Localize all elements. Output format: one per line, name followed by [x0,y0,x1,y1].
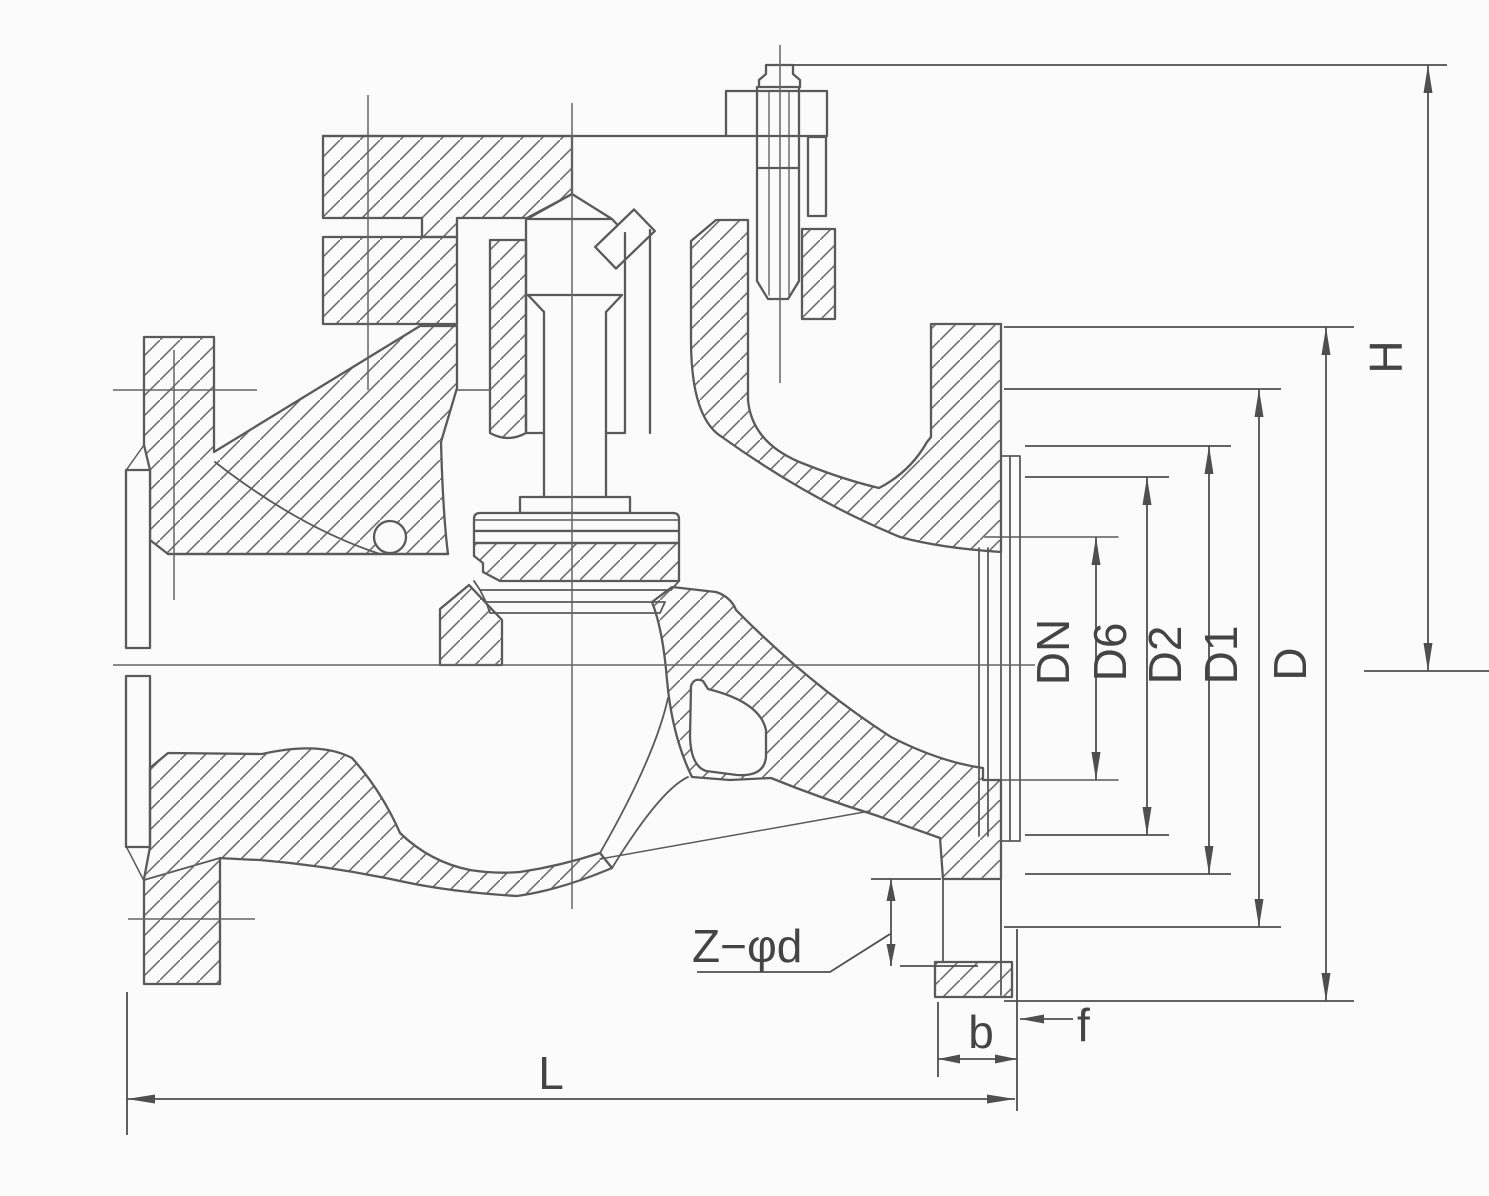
bonnet top plate [323,136,572,237]
left flange hole cross top [113,350,257,600]
neck ledge tick [457,389,490,391]
clip [595,209,655,268]
stem [544,312,606,497]
guide cylinder [526,219,650,433]
D1 extensions [1004,389,1281,927]
horizontal centerline [113,664,1035,666]
svg-text:f: f [1077,999,1090,1051]
seat left [440,585,502,665]
bolt centerline [779,45,781,383]
svg-text:b: b [968,1006,994,1058]
disc top plate [474,513,679,531]
partition band [652,587,1001,879]
guide cone [527,194,625,233]
svg-text:D6: D6 [1084,623,1136,682]
right flange face lines [979,324,1020,995]
projection line outlet bottom [600,811,870,859]
D1 dimension line [1258,389,1260,927]
svg-text:DN: DN [1027,619,1079,685]
L arrows [127,1095,155,1104]
hub taper line bottom [144,858,220,880]
D2 extensions [1025,446,1231,874]
b arrows [938,1055,960,1064]
right bore bottom line [985,779,1118,781]
bonnet top line [323,135,726,137]
bolt cap [759,65,800,87]
D2 dimension line [1208,446,1210,874]
right flange bolt hole outline [935,879,1001,962]
left raised face top [126,470,150,648]
D6 dimension line [1146,477,1148,835]
bolt shank [757,87,799,299]
right upper wall and flange [691,220,1001,552]
disc mid band [474,531,679,543]
H bottom extension [1364,670,1489,672]
b dimension line [938,1058,1017,1060]
svg-text:D: D [1264,647,1316,680]
left web and flange top [144,326,457,554]
arrowheads [127,65,1433,1104]
vertical stem centerline [571,103,573,909]
D arrows [1322,327,1331,355]
D2 arrows [1205,446,1214,474]
bolt lug right [802,229,835,319]
f dimension line [1020,1018,1073,1020]
svg-text:Z−φd: Z−φd [692,920,802,972]
disc lower plates [474,581,679,613]
Z-phi-d leader [697,934,890,972]
phi-d dimension line [890,879,892,966]
disc hatched band [474,543,679,581]
bolt washer plate [808,137,826,216]
hub transition curve [215,462,380,554]
D dimension line [1325,327,1327,1001]
b extension [937,1002,939,1077]
svg-text:H: H [1360,340,1412,373]
bolt nut [726,91,827,136]
H top extension [793,64,1447,66]
D6 arrows [1143,477,1152,505]
projection curve partition left inner [612,777,688,868]
H dimension line [1427,65,1429,671]
L dimension line [127,1098,1015,1100]
DN dimension line [1095,537,1097,780]
D6 extensions [1025,477,1169,835]
stem washer [520,497,630,513]
left bore top line [168,553,448,555]
left flange hole line bottom [128,918,255,920]
D1 arrows [1255,389,1264,417]
bonnet lower flange [323,237,457,324]
centerlines [113,45,1035,919]
inner shoulder [528,295,622,312]
H arrows [1424,65,1433,93]
neck strip [490,240,526,438]
DN arrows [1092,537,1101,565]
svg-text:L: L [538,1047,564,1099]
f arrow [1020,1015,1044,1024]
partition pocket [690,680,766,775]
phi-d extensions [871,879,978,966]
svg-text:D2: D2 [1139,626,1191,685]
projection curve partition left lower [600,698,668,853]
ball detail [374,521,406,553]
left raised face bottom [126,676,150,847]
phi-d arrows [887,879,896,901]
L extensions [127,929,1017,1135]
bonnet bolt centerline [367,95,369,390]
D extensions [1004,327,1354,1001]
right flange bottom hatched strip [935,962,1012,997]
svg-text:D1: D1 [1195,626,1247,685]
right bore top line [985,536,1118,538]
left flange bottom and bowl band [144,748,612,984]
left socket face line [127,445,144,879]
